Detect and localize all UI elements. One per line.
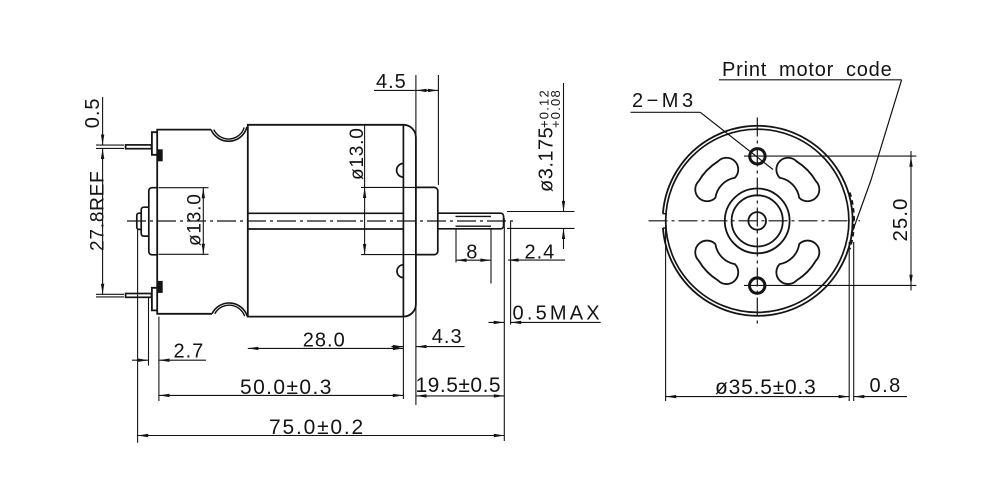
screw hole top [750, 149, 765, 164]
dim can dia13 line [364, 125, 366, 255]
shaft flat top [456, 215, 492, 217]
dim 4.5 line [374, 89, 438, 91]
svg-text:19.5±0.5: 19.5±0.5 [416, 374, 502, 397]
dim 75.0 line [138, 435, 505, 437]
shaft [438, 213, 504, 229]
hub step3 nose [137, 213, 141, 229]
bearing boss [416, 187, 438, 254]
dim 0.8 arrow and line [854, 396, 907, 398]
ext line hub nose [137, 229, 139, 442]
dim 8 ext lines [456, 229, 491, 284]
front horizontal centerline [649, 220, 861, 222]
dim endcap dia13 ext lines [159, 188, 209, 255]
dim 0.5 line [102, 97, 104, 145]
svg-text:2.4: 2.4 [525, 241, 556, 263]
svg-text:75.0±0.2: 75.0±0.2 [269, 416, 365, 439]
vent bean SW [695, 241, 738, 284]
svg-text:+0.08: +0.08 [548, 89, 563, 128]
svg-text:4.3: 4.3 [432, 326, 463, 348]
dim 28.0 line [248, 347, 404, 349]
label print motor code underline [719, 79, 902, 81]
svg-text:0.5MAX: 0.5MAX [513, 302, 603, 324]
hub step2 [141, 207, 149, 236]
top notch arc inner [214, 127, 244, 139]
ext line 2.7 B [148, 297, 150, 365]
terminal slot 1 [158, 150, 162, 161]
dim 0.8 ext right [853, 242, 855, 401]
shaft flat bottom [456, 225, 492, 227]
terminal bracket 1 [152, 132, 157, 155]
dim 25.0 line [910, 151, 912, 291]
centerline side view [127, 220, 517, 222]
svg-text:4.5: 4.5 [376, 71, 407, 93]
dim dia35.5 line [666, 396, 850, 398]
svg-text:0.5: 0.5 [82, 97, 104, 128]
dim dia3.175 line [563, 83, 565, 249]
hub middle circle [732, 195, 783, 246]
svg-text:Print motor code: Print motor code [722, 59, 893, 81]
screw hole bottom [750, 278, 765, 293]
vent bean NE [776, 158, 819, 201]
dim 4.5 ext lines [416, 75, 439, 185]
terminal bracket 2 [152, 288, 157, 311]
knurl dashed arc [850, 193, 854, 250]
dim dia3.175 ext lines [507, 212, 575, 229]
dim dia35.5 ext left [665, 225, 667, 401]
svg-text:2.7: 2.7 [174, 341, 205, 363]
svg-text:8: 8 [466, 241, 477, 263]
top notch arc outer [211, 127, 247, 141]
dim 50.0 line [159, 394, 404, 396]
ext line 2.7/50 C [158, 317, 160, 401]
label print motor code leader [852, 80, 901, 232]
vent bean SE [776, 241, 819, 284]
front outer circle [663, 126, 853, 316]
svg-text:ø13.0: ø13.0 [347, 127, 368, 180]
svg-text:28.0: 28.0 [303, 329, 346, 351]
bottom notch arc inner [215, 305, 245, 316]
dim 0.5MAX ext line right [510, 222, 512, 325]
label 2-M3 leader [700, 112, 773, 169]
terminal slot 2 [158, 281, 162, 292]
dim can dia13 ext lines [361, 187, 421, 254]
svg-text:ø13.0: ø13.0 [185, 193, 206, 246]
terminal T1 (top) [126, 145, 152, 149]
svg-text:ø3.175: ø3.175 [536, 127, 558, 192]
can seam line [402, 125, 404, 317]
label 2-M3 underline [631, 111, 701, 113]
svg-text:50.0±0.3: 50.0±0.3 [240, 376, 333, 399]
ext line seam [402, 317, 404, 399]
vent bean NW [695, 158, 738, 201]
hub outer circle [725, 189, 790, 254]
dim 2.7 arrows [132, 359, 206, 361]
bottom notch arc outer [212, 303, 247, 316]
dim 0.5 ext lines [96, 145, 124, 148]
crimp bump top [397, 164, 404, 178]
svg-text:25.0: 25.0 [889, 198, 912, 242]
svg-text:2−M3: 2−M3 [632, 90, 697, 112]
endcap outline [157, 130, 212, 314]
dim 25.0 ext lines [744, 156, 916, 285]
dim 27.8REF line [102, 148, 104, 294]
svg-text:ø35.5±0.3: ø35.5±0.3 [715, 376, 817, 399]
dim 2.4 arrow and line [508, 259, 565, 261]
can inner line upper [248, 212, 404, 214]
ext line can right [415, 304, 417, 405]
dim 19.5 line [416, 395, 505, 397]
dim 27.8 ext lines bottom [96, 294, 124, 297]
can body [248, 125, 416, 317]
front vertical centerline [756, 118, 758, 326]
dim dia35.5 ext right [848, 242, 850, 401]
svg-text:0.8: 0.8 [870, 375, 902, 397]
hub step1 [149, 188, 158, 255]
shaft circle [748, 212, 766, 230]
dim 0.5MAX arrows [489, 321, 601, 323]
terminal T2 (bottom) [126, 294, 152, 298]
dim 4.3 arrows [391, 346, 464, 348]
dim 0.5MAX ext line left [503, 218, 505, 441]
can inner line lower [248, 228, 404, 230]
dim endcap dia13 line [202, 188, 204, 255]
front inner circle [666, 129, 849, 312]
crimp bump bottom [397, 265, 403, 278]
dim 8 line [456, 259, 491, 261]
svg-text:27.8REF: 27.8REF [88, 170, 109, 251]
front rim gap ticks [663, 214, 667, 228]
